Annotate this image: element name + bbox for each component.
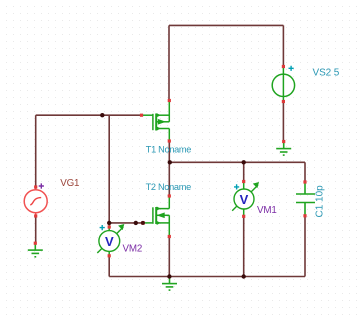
pin ground VS2 [282,140,285,143]
wire VG1 to ground [35,216,37,243]
svg-text:VS2 5: VS2 5 [313,68,340,79]
capacitor C1 [296,184,315,215]
wire gate rail T1 [36,114,142,116]
wire VM1 top drop [243,162,245,181]
pin VG1 bottom [34,214,37,217]
label VM1 [257,205,277,216]
wire C1 top drop [304,162,306,182]
pin T1 drain [168,99,171,102]
pin VM2 bottom [108,254,111,257]
node T2 gate rail dot A [134,221,138,225]
generator VG1 [24,187,47,216]
wire T1 source to mid rail [168,141,170,162]
node bottom ground junction [167,274,171,278]
svg-text:VG1: VG1 [60,178,79,189]
pin VS2 top [282,65,285,68]
transistor T1 [143,101,169,142]
pin T1 gate [140,114,143,117]
wire T2 gate rail [109,222,143,224]
ground bottom [162,277,177,290]
pin C1 bottom [303,214,306,217]
pin VM1 bottom [242,215,245,218]
pin T1 source [168,139,171,142]
node VM1 bottom junction [242,274,246,278]
voltmeter VM1 [232,182,258,217]
label T1 [146,144,191,154]
voltage source VS2 [272,68,294,101]
svg-text:VM2: VM2 [123,243,143,254]
label VS2 [313,68,340,79]
svg-text:T2 Noname: T2 Noname [146,182,191,192]
wire T1 drain drop [168,25,170,100]
label C1 [314,185,325,218]
node VM1 top junction [242,160,246,164]
wire VM2 bottom drop [108,256,110,277]
label VG1 [60,178,79,189]
ground VS2 [276,143,291,155]
plus VG1 [39,183,44,188]
pin C1 top [303,180,306,183]
plus VM2 [100,225,105,230]
wire mid rail to T2 drain [168,162,170,196]
pin T2 gate [141,221,144,224]
wire bottom rail [109,276,305,278]
pin VS2 bottom [282,100,285,103]
pin T2 source [168,235,171,238]
label VM2 [123,243,143,254]
wire mid rail [169,161,305,163]
plus VM1 [234,184,239,189]
svg-text:V: V [240,192,249,207]
plus VS2 [289,66,294,71]
pin T2 drain [168,194,171,197]
svg-text:C1 10p: C1 10p [314,185,325,218]
node T2 gate pin dot [141,221,145,225]
wire mid vertical drop [108,115,110,223]
wire left drop to VG1 [35,115,37,187]
pin VM1 top [242,180,245,183]
wire top rail [169,24,283,26]
wire C1 down [304,216,306,277]
wire VM1 down [243,216,245,276]
transistor T2 [143,196,169,237]
voltmeter VM2 [97,223,124,256]
ground VG1 [28,245,43,257]
node mid rail junction [168,160,172,164]
svg-text:VM1: VM1 [257,205,277,216]
svg-text:V: V [105,234,114,249]
wire VS2 top drop [282,25,284,66]
svg-text:T1 Noname: T1 Noname [146,144,191,154]
pin VM2 top [108,225,111,228]
wire T2 source down [168,237,170,277]
pin ground VG1 [34,242,37,245]
wire VS2 to ground [282,102,284,142]
label T2 [146,182,191,192]
node VM2 top junction [107,221,111,225]
pin VG1 top [34,185,37,188]
node gate rail junction [100,113,104,117]
